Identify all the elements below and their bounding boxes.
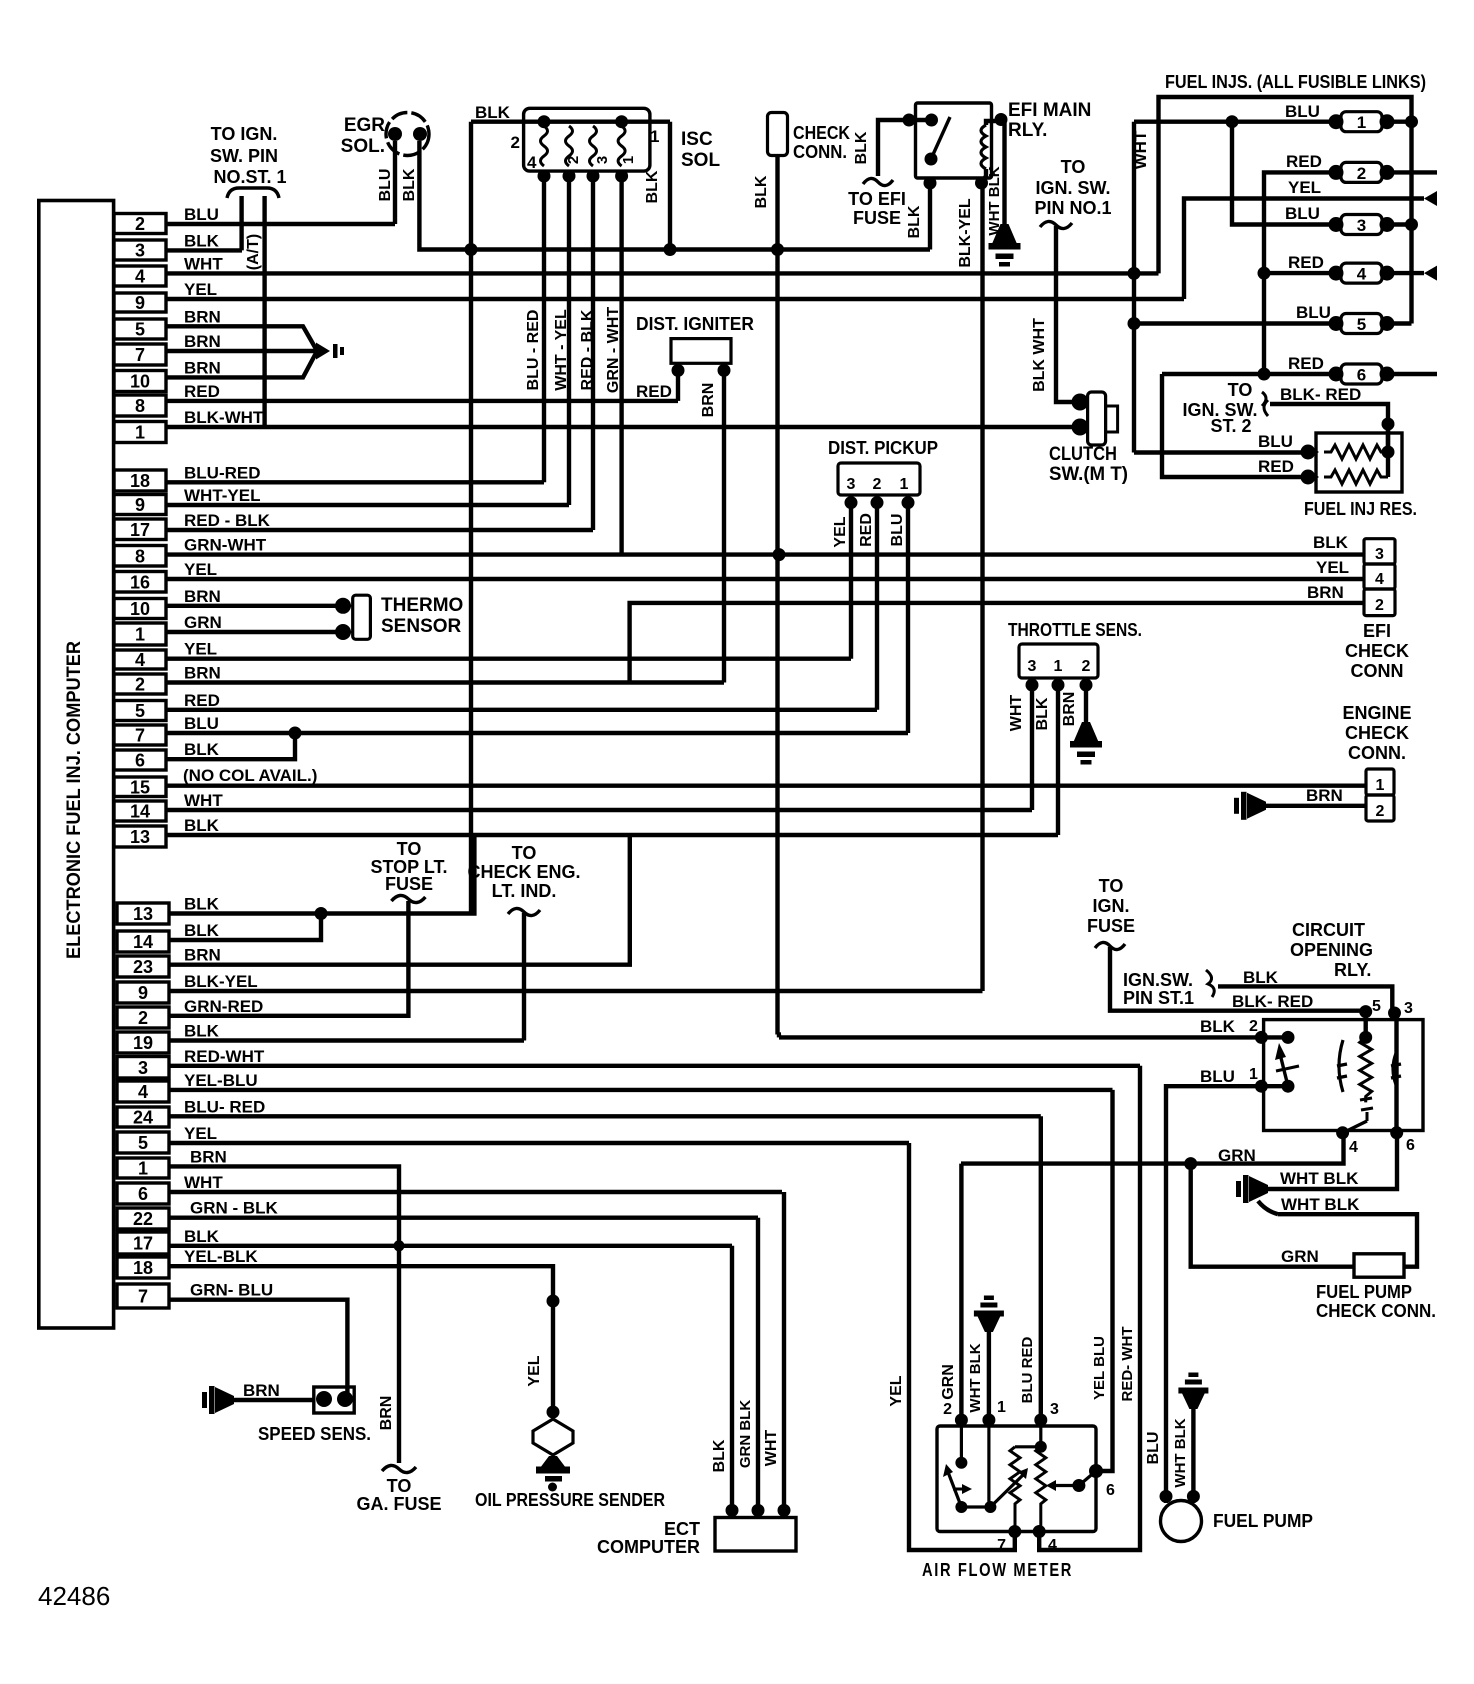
wire BLK pin13b to throttle sens: [166, 833, 1058, 837]
afm terminal 7: [1008, 1525, 1021, 1538]
svg-text:3: 3: [138, 1058, 148, 1078]
label FUEL INJS. (ALL FUSIBLE LINKS): [1165, 72, 1426, 92]
wire res right link: [1386, 424, 1390, 477]
svg-text:15: 15: [130, 777, 150, 797]
svg-text:RED: RED: [858, 513, 875, 547]
relay pin 6 dot: [1390, 1126, 1403, 1139]
connector ENGINE CHECK CONN 1: [1366, 769, 1394, 795]
wire GRN-WHT pin8 to EFI check conn: [166, 552, 1364, 556]
wire top-left jumper: [909, 118, 932, 122]
label RED (link2): [1286, 152, 1322, 171]
fuel pump stubs: [1166, 1496, 1193, 1503]
svg-text:18: 18: [130, 471, 150, 491]
svg-text:SW.(M T): SW.(M T): [1049, 464, 1128, 485]
svg-text:RED - BLK: RED - BLK: [579, 309, 596, 390]
svg-text:13: 13: [133, 904, 153, 924]
connector EFI CHECK CONN 3: [1364, 539, 1395, 564]
label YEL (EFI check): [1316, 558, 1349, 577]
svg-text:6: 6: [138, 1184, 148, 1204]
svg-text:GRN - BLK: GRN - BLK: [190, 1199, 279, 1218]
thermo sensor connector: [353, 595, 371, 639]
fusible link 3: [1329, 215, 1395, 236]
svg-text:CONN: CONN: [1351, 661, 1404, 681]
wire BLK pin17c to ECT computer: [169, 1244, 732, 1248]
svg-text:YEL: YEL: [1288, 178, 1321, 197]
label GRN (afm): [940, 1364, 957, 1400]
wire GRN afm pin2: [959, 1164, 963, 1420]
wire relay pin1 stub: [1261, 1084, 1288, 1088]
relay coil (pin3-pin6): [1391, 1013, 1401, 1133]
svg-text:GRN: GRN: [940, 1364, 957, 1400]
svg-text:1: 1: [997, 1399, 1006, 1416]
svg-text:4: 4: [135, 267, 145, 287]
label 3 (relay): [1404, 1000, 1413, 1017]
svg-text:6: 6: [1357, 366, 1366, 385]
svg-text:ECT: ECT: [664, 1519, 700, 1539]
svg-text:WHT: WHT: [1008, 695, 1025, 732]
svg-text:GRN: GRN: [1281, 1247, 1319, 1266]
connector pin 13c (computer): [117, 895, 220, 925]
wire right bus: [1409, 122, 1413, 324]
label BLK (ISC left): [475, 103, 511, 122]
wire BRN pin2b to dist igniter: [166, 680, 724, 684]
fuel pump terminal right: [1187, 1490, 1200, 1503]
wire BLK check conn to relay pin2: [778, 1035, 1262, 1038]
svg-text:5: 5: [135, 701, 145, 721]
wire BLU-RED from ISC: [542, 171, 546, 482]
connector pin 19 (computer): [117, 1022, 220, 1054]
svg-text:RED: RED: [184, 382, 220, 401]
module DIST IGNITER box: [671, 339, 731, 364]
label 1 (ISC top right): [650, 127, 659, 146]
wire YEL afm pin7 to pin5c: [909, 1143, 1015, 1550]
ground (fuel pump check): [1236, 1175, 1268, 1203]
label BLK- RED (relay): [1232, 992, 1313, 1011]
svg-text:1: 1: [138, 1159, 148, 1179]
wire check eng lt to pin19: [522, 913, 526, 1041]
svg-text:WHT: WHT: [184, 254, 223, 273]
afm terminal 4: [1033, 1525, 1046, 1538]
label BLK (EGR): [401, 168, 418, 201]
wire WHT pin4: [166, 271, 1159, 275]
svg-text:YEL BLU: YEL BLU: [1091, 1336, 1108, 1400]
label RED-BLK (ISC): [579, 309, 596, 390]
wire to ign sw st1 (left drop to pin3 BLK): [239, 196, 243, 250]
ECT terminal GRN BLK: [752, 1504, 765, 1517]
svg-text:BLU: BLU: [184, 205, 219, 224]
svg-text:18: 18: [133, 1258, 153, 1278]
svg-text:RED-WHT: RED-WHT: [184, 1047, 265, 1066]
svg-text:17: 17: [130, 520, 150, 540]
wire BLU EGR left pin: [393, 141, 397, 224]
label TO IGN. SW. PIN NO.1: [1034, 157, 1111, 218]
label 5 (relay): [1372, 998, 1381, 1015]
wire BLK WHT ign sw to clutch: [1056, 226, 1082, 402]
label RED- WHT (afm): [1119, 1327, 1136, 1402]
label DIST. PICKUP: [828, 438, 938, 458]
fuse tap TO EFI FUSE: [863, 178, 893, 185]
svg-text:TO IGN.: TO IGN.: [211, 124, 278, 144]
wire BLK pin14c: [169, 914, 321, 941]
svg-text:RED: RED: [1258, 457, 1294, 476]
wire BLK-RED ign fuse to relay pin5: [1110, 947, 1366, 1011]
svg-text:3: 3: [1357, 216, 1366, 235]
fuel pump terminal left: [1160, 1490, 1173, 1503]
connector pin 7c (computer): [117, 1281, 273, 1308]
wire link4 tail: [1393, 271, 1424, 275]
wire RED pin8 to igniter: [166, 399, 678, 403]
label ECT COMPUTER: [597, 1519, 700, 1557]
label BLK (relay pin2): [1200, 1017, 1236, 1036]
label OIL PRESSURE SENDER: [475, 1490, 665, 1510]
svg-text:1: 1: [650, 127, 659, 146]
connector pin 4c (computer): [117, 1071, 258, 1102]
label TO GA. FUSE: [356, 1476, 441, 1514]
svg-text:SENSOR: SENSOR: [381, 616, 462, 637]
junction WHT/pin4 line: [1128, 267, 1141, 280]
svg-text:9: 9: [138, 983, 148, 1003]
label 7 (afm): [997, 1537, 1006, 1554]
EFI relay pin dot bottom-right: [975, 177, 988, 190]
svg-text:BLK: BLK: [1200, 1017, 1236, 1036]
fusible link 2: [1329, 162, 1395, 183]
connector pin 9c (computer): [117, 972, 258, 1003]
svg-text:ELECTRONIC FUEL INJ. COMPUTER: ELECTRONIC FUEL INJ. COMPUTER: [64, 641, 85, 959]
connector CHECK CONN body: [768, 113, 788, 156]
svg-text:8: 8: [135, 546, 145, 566]
svg-text:THROTTLE SENS.: THROTTLE SENS.: [1008, 620, 1142, 640]
wire BLK ect to pin17c: [730, 1246, 734, 1511]
relay pin 1 dot: [1255, 1080, 1268, 1093]
svg-text:CHECK ENG.: CHECK ENG.: [467, 862, 580, 882]
label BRN (igniter): [700, 383, 717, 418]
svg-text:OIL PRESSURE SENDER: OIL PRESSURE SENDER: [475, 1490, 665, 1510]
svg-text:5: 5: [138, 1133, 148, 1153]
svg-text:TO: TO: [512, 843, 537, 863]
label TO IGN. FUSE: [1087, 876, 1135, 936]
afm potentiometer wiper: [990, 1468, 1028, 1507]
connector EFI CHECK CONN 4: [1364, 564, 1395, 589]
svg-text:BLK: BLK: [184, 895, 220, 914]
svg-text:2: 2: [135, 675, 145, 695]
dist igniter terminal left: [672, 364, 685, 377]
svg-text:TO: TO: [1061, 157, 1086, 177]
wire RED pickup2 to pin5b: [875, 495, 879, 710]
label 3 (ISC coil3): [594, 156, 611, 164]
connector pin 7b (computer): [114, 714, 219, 746]
svg-text:4: 4: [1357, 265, 1367, 284]
svg-text:YEL: YEL: [184, 280, 217, 299]
svg-text:BRN: BRN: [184, 332, 221, 351]
wire GRN to fuel pump check conn: [1191, 1164, 1354, 1267]
svg-text:CIRCUIT: CIRCUIT: [1292, 920, 1365, 940]
wire WHT riser: [1132, 122, 1136, 453]
wire BLK pin19 to check engine light: [169, 1038, 524, 1042]
wire link6 tail: [1393, 372, 1437, 376]
label FUEL INJ RES.: [1304, 499, 1417, 519]
svg-text:NO.ST. 1: NO.ST. 1: [213, 167, 286, 187]
svg-text:42486: 42486: [38, 1581, 110, 1611]
wire BLK-RED to fuel inj res: [1270, 404, 1388, 452]
wire coil bottom to BLK-YEL pin: [982, 169, 987, 183]
label 2 (ISC): [511, 133, 520, 152]
svg-text:3: 3: [1028, 658, 1037, 675]
svg-text:YEL: YEL: [184, 640, 217, 659]
svg-text:BRN: BRN: [1306, 786, 1343, 805]
label 2 (afm): [943, 1401, 952, 1418]
wire WHT ect to pin6c: [782, 1192, 786, 1510]
label BLK- RED: [1280, 385, 1361, 404]
svg-text:14: 14: [130, 802, 150, 822]
wire RED-BLK from ISC: [591, 171, 595, 530]
svg-text:22: 22: [133, 1209, 153, 1229]
resistor FUEL INJ RES box: [1316, 433, 1402, 492]
afm resistor network: [1010, 1426, 1047, 1531]
svg-text:BLK-YEL: BLK-YEL: [957, 198, 974, 268]
wire WHT BLK ground to relay pin6: [1268, 1133, 1397, 1189]
svg-text:ISC: ISC: [681, 129, 713, 150]
label 6 (relay): [1406, 1137, 1415, 1154]
label BLU (relay pin1): [1200, 1067, 1235, 1086]
svg-text:BLK: BLK: [184, 921, 220, 940]
svg-text:BLK: BLK: [753, 175, 770, 208]
svg-text:3: 3: [847, 476, 856, 493]
afm internal switch: [943, 1426, 996, 1513]
fuel inj res bottom resistor: [1324, 470, 1388, 484]
junction ISC top right coil: [615, 115, 628, 128]
wire pin15 to engine check conn: [166, 784, 1366, 788]
ground (throttle sens): [1070, 722, 1102, 765]
wire YEL pin9: [166, 297, 1184, 301]
svg-text:3: 3: [594, 156, 611, 164]
wire WHT pin6c to ECT computer: [169, 1190, 782, 1194]
wire BRN to EFI check conn: [630, 603, 1364, 683]
wire BLU-RED afm pin3 to pin24: [1037, 1116, 1041, 1420]
svg-text:BLU: BLU: [889, 514, 906, 547]
svg-text:WHT: WHT: [1131, 130, 1150, 169]
throttle terminal 2: [1080, 679, 1093, 692]
EFI relay pin dot right: [995, 113, 1008, 126]
svg-text:RED: RED: [1288, 253, 1324, 272]
wire YEL pin16 to EFI check conn: [166, 577, 1364, 581]
connector pin 13b (computer): [114, 816, 220, 847]
label IGN.SW. PIN ST.1: [1123, 970, 1194, 1008]
fuse tap stop lt fuse: [391, 895, 425, 902]
drawing number 42486: [38, 1581, 110, 1611]
svg-text:FUEL PUMP: FUEL PUMP: [1316, 1282, 1412, 1302]
svg-text:BRN: BRN: [1061, 692, 1078, 727]
label GRN BLK (ect): [737, 1400, 754, 1468]
svg-text:GRN-RED: GRN-RED: [184, 997, 263, 1016]
connector pin 14c (computer): [117, 921, 220, 952]
fuse tap TO GA FUSE: [382, 1465, 416, 1472]
svg-text:YEL-BLK: YEL-BLK: [184, 1247, 258, 1266]
EFI relay pin dot left: [903, 114, 916, 127]
svg-text:4: 4: [135, 650, 145, 670]
afm terminal 6: [1089, 1464, 1103, 1478]
svg-text:BLU: BLU: [1258, 432, 1293, 451]
svg-text:10: 10: [130, 372, 150, 392]
svg-text:WHT: WHT: [184, 791, 223, 810]
wire WHT BLK fuel pump ground: [1191, 1408, 1195, 1496]
svg-text:BLU- RED: BLU- RED: [184, 1097, 265, 1116]
ground (engine check conn): [1234, 792, 1266, 820]
label 2 (relay): [1249, 1018, 1258, 1035]
svg-text:TO EFI: TO EFI: [848, 189, 906, 209]
label TO IGN. SW. ST. 2: [1182, 380, 1257, 436]
svg-text:BLU: BLU: [1145, 1432, 1162, 1465]
fusible link 5: [1329, 314, 1395, 335]
svg-text:RLY.: RLY.: [1008, 120, 1047, 141]
label BLU RED (afm): [1019, 1337, 1036, 1404]
svg-text:GRN-WHT: GRN-WHT: [184, 536, 267, 555]
svg-text:BLK: BLK: [906, 205, 923, 238]
svg-text:SOL.: SOL.: [341, 136, 385, 157]
svg-text:CHECK: CHECK: [793, 123, 850, 143]
wire RED pin5b to dist pickup: [166, 708, 877, 712]
ISC coil 1: [541, 126, 548, 166]
EFI relay switch contact top: [925, 114, 938, 127]
connector pin 15 (computer): [114, 766, 317, 797]
wire BRN pin23: [169, 835, 630, 965]
label BLK (check conn): [753, 175, 770, 208]
wire GRN BLK ect to pin22: [756, 1218, 760, 1511]
wire BLK to EFI fuse: [878, 120, 909, 176]
wire WHT-YEL pin9b: [166, 503, 569, 507]
EFI computer rotated title: [64, 641, 85, 959]
junction ISC top left coil: [538, 115, 551, 128]
label BLK (ect): [711, 1439, 728, 1472]
svg-text:BLK- RED: BLK- RED: [1280, 385, 1361, 404]
svg-text:GRN: GRN: [184, 613, 222, 632]
svg-text:BLK: BLK: [1034, 697, 1051, 730]
EGR SOL pin left: [388, 127, 402, 141]
ground (EFI main relay): [989, 224, 1021, 267]
label 2 (throttle): [1082, 658, 1091, 675]
svg-text:BLU: BLU: [1285, 204, 1320, 223]
connector pin 22 (computer): [117, 1199, 279, 1229]
sensor THROTTLE SENS box: [1019, 644, 1098, 678]
svg-text:BRN: BRN: [184, 307, 221, 326]
svg-text:BLK: BLK: [475, 103, 511, 122]
wire BLU-RED pin24 to air flow meter: [169, 1114, 1037, 1118]
junction BLU1/BLU3: [1226, 115, 1239, 128]
svg-text:BLK-WHT: BLK-WHT: [184, 408, 264, 427]
wire YEL-BLK pin18c to oil pressure sender: [169, 1266, 553, 1412]
connector SPEED SENS: [314, 1387, 354, 1413]
ISC coil bottom dot 2: [563, 170, 576, 183]
afm terminal 2: [955, 1414, 968, 1427]
label BLK-YEL (relay): [957, 198, 974, 268]
connector pin 5b (computer): [114, 691, 220, 721]
junction pin13c/pin14c: [315, 907, 328, 920]
svg-text:YEL: YEL: [526, 1355, 543, 1386]
svg-text:YEL: YEL: [1316, 558, 1349, 577]
svg-text:3: 3: [1375, 546, 1384, 563]
svg-text:ENGINE: ENGINE: [1342, 703, 1411, 723]
bracket ign sw pin st1: [1206, 970, 1214, 997]
svg-text:BLK: BLK: [184, 1227, 220, 1246]
EFI relay switch contact bottom: [925, 153, 938, 166]
wire link1 to right bus: [1393, 119, 1412, 123]
ISC coil bottom dot 4: [615, 170, 628, 183]
bracket ign sw st2: [1262, 392, 1268, 416]
relay coil left bracket: [1337, 1040, 1347, 1092]
svg-text:FUEL PUMP: FUEL PUMP: [1213, 1511, 1313, 1531]
shield merge arrow pins 5/7/10: [316, 343, 344, 360]
svg-text:SPEED SENS.: SPEED SENS.: [258, 1424, 371, 1444]
thermo sensor arrow GRN: [335, 624, 353, 640]
arrow RED into res: [1301, 470, 1320, 485]
wire RED link4 feed: [1264, 271, 1330, 275]
label BRN (EFI check): [1307, 583, 1344, 602]
svg-text:6: 6: [135, 751, 145, 771]
svg-text:SOL: SOL: [681, 150, 720, 171]
wire link5 to right bus: [1393, 321, 1412, 325]
svg-text:2: 2: [138, 1008, 148, 1028]
connector pin 14b (computer): [114, 791, 223, 822]
svg-text:COMPUTER: COMPUTER: [597, 1537, 700, 1557]
svg-text:GRN BLK: GRN BLK: [737, 1400, 754, 1468]
label WHT BLK (relay pin6): [1280, 1169, 1359, 1188]
svg-text:YEL-BLU: YEL-BLU: [184, 1071, 258, 1090]
svg-text:4: 4: [138, 1082, 148, 1102]
label FUEL PUMP CHECK CONN.: [1316, 1282, 1436, 1321]
svg-text:7: 7: [138, 1287, 148, 1307]
wire YEL pickup3 to pin4b: [849, 495, 853, 659]
svg-text:BLK: BLK: [184, 231, 220, 250]
wire BLK pin6b joins BLU: [166, 733, 295, 759]
wire BLK-WHT pin1 to clutch sw: [166, 425, 1085, 429]
label BLK (efi fuse wire): [853, 131, 870, 164]
throttle terminal 1: [1052, 679, 1065, 692]
svg-text:7: 7: [135, 726, 145, 746]
svg-text:RED: RED: [1286, 152, 1322, 171]
switch CLUTCH SW body: [1088, 392, 1118, 445]
junction ISC right BLK / bus: [664, 243, 677, 256]
wire YEL-BLU pin4c to air flow meter: [169, 1088, 1113, 1092]
label 3 (throttle): [1028, 658, 1037, 675]
label 4 (relay): [1349, 1139, 1358, 1156]
wire RED-BLK pin17: [166, 528, 593, 532]
connector pin 4 (computer): [114, 254, 223, 286]
label YEL (oil sender): [526, 1355, 543, 1386]
wire BLK ISC left vertical: [469, 122, 473, 914]
connector pin 8 (computer): [114, 382, 220, 416]
wire BLK across ISC top: [471, 119, 670, 123]
wire GRN to relay pin4: [961, 1133, 1344, 1164]
svg-text:EGR: EGR: [344, 115, 385, 136]
svg-text:5: 5: [135, 320, 145, 340]
connector hooks ign sw st1: [227, 188, 279, 198]
svg-text:BRN: BRN: [184, 587, 221, 606]
label 1 (pickup): [900, 476, 909, 493]
svg-text:YEL: YEL: [888, 1375, 905, 1406]
wire GRN-WHT from ISC: [619, 171, 623, 555]
fuse tap ign sw pin no1: [1040, 221, 1072, 228]
wire BLU pin2 to EGR: [166, 222, 395, 226]
label WHT (ect): [763, 1430, 780, 1467]
wire BRN pin10b to thermo sensor: [166, 604, 340, 608]
wire relay pin2 stub: [1261, 1035, 1288, 1039]
svg-text:WHT BLK: WHT BLK: [967, 1343, 984, 1412]
label 4 (ISC): [527, 153, 537, 172]
label 1 (relay): [1249, 1066, 1258, 1083]
dist pickup terminal 2: [871, 496, 884, 509]
solenoid ISC SOL body: [524, 108, 650, 171]
junction RED feeder/link4: [1258, 267, 1271, 280]
solenoid EGR SOL body: [386, 113, 429, 156]
